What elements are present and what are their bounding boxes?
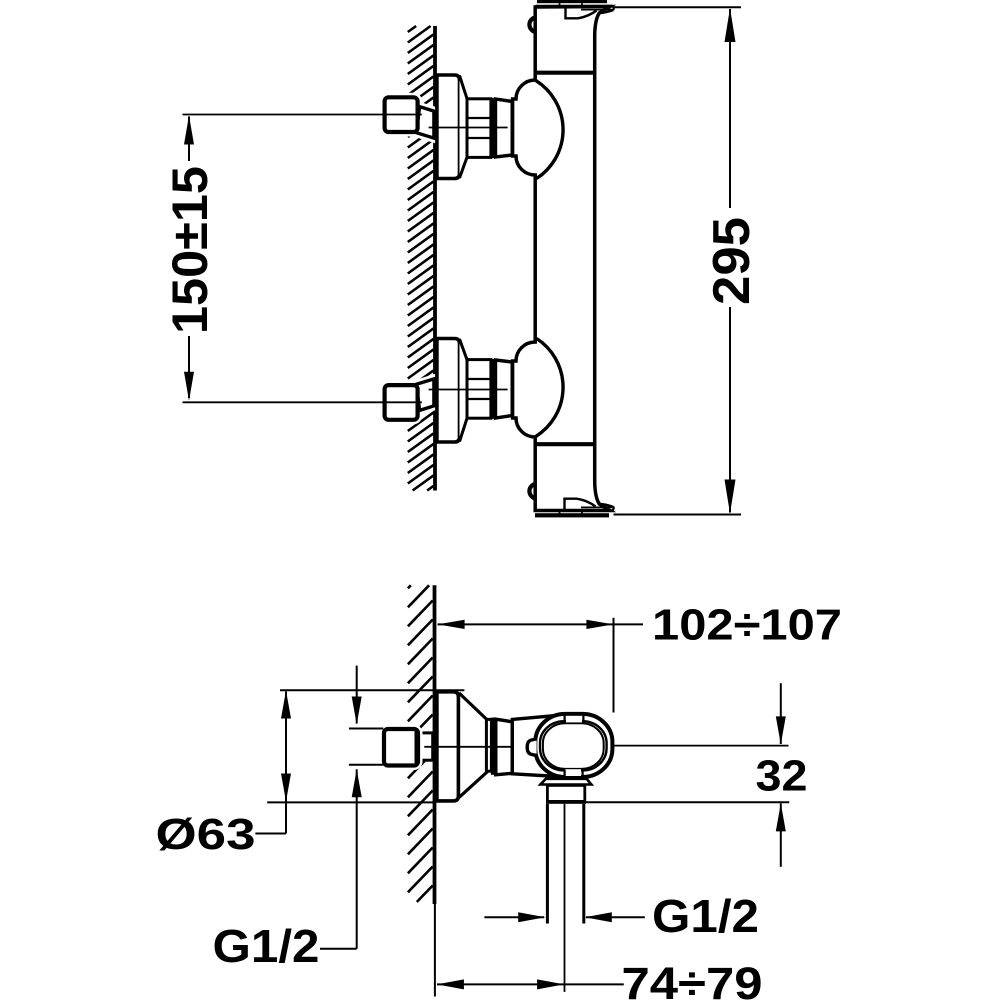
102÷107 extension line bbox=[613, 618, 615, 713]
axis center line (wall to union) bbox=[424, 746, 512, 748]
102÷107 dimension line bbox=[438, 623, 644, 625]
top wall flange (escutcheon) bbox=[437, 75, 460, 179]
295 dim line lower segment bbox=[729, 307, 731, 513]
knob side button bbox=[527, 739, 536, 756]
wall surface line (bottom view) bbox=[433, 585, 437, 904]
top union nut bbox=[496, 99, 513, 157]
bottom union sleeve bbox=[467, 360, 491, 419]
bottom knob right skirt bbox=[600, 504, 614, 507]
74÷79 dimension line bbox=[437, 983, 624, 985]
G1/2 left top arrow shaft bbox=[356, 666, 358, 724]
32 bottom arrow shaft bbox=[780, 803, 782, 866]
svg-text:Ø63: Ø63 bbox=[156, 810, 256, 859]
top cap tick left bbox=[559, 3, 561, 6]
knob ring notch top-right bbox=[582, 715, 584, 723]
svg-text:150±15: 150±15 bbox=[162, 166, 218, 334]
bottom wall flange (escutcheon) bbox=[437, 339, 460, 443]
Ø63 top arrow bbox=[281, 691, 291, 719]
102÷107 left arrow bbox=[438, 620, 465, 629]
32 top arrow bbox=[776, 716, 786, 744]
bottom flange chamfer bbox=[460, 339, 468, 442]
top knob skirt curve bbox=[578, 11, 597, 19]
top knob step bbox=[566, 6, 579, 18]
74÷79 right arrow bbox=[537, 979, 564, 989]
top flange chamfer bbox=[460, 76, 468, 179]
Ø63 bottom arrow bbox=[281, 774, 291, 802]
bottom knob skirt curve bbox=[577, 499, 596, 507]
bottom view supply hex nut bbox=[384, 729, 418, 766]
G1/2 left bottom arrow shaft bbox=[356, 769, 358, 948]
G1/2 left top arrow bbox=[352, 697, 362, 725]
union face bar (bottom view) bbox=[491, 718, 496, 775]
svg-text:G1/2: G1/2 bbox=[652, 890, 759, 942]
svg-text:G1/2: G1/2 bbox=[213, 920, 320, 972]
bottom knob cap bar bbox=[535, 513, 609, 517]
bottom nut facet line bbox=[416, 387, 418, 418]
bottom view wall union neck bbox=[420, 733, 433, 760]
bottom knob rim bbox=[536, 507, 614, 511]
bottom sleeve thread line 2 bbox=[467, 398, 491, 400]
G1/2 right left arrow shaft bbox=[484, 916, 544, 918]
top ear clip bbox=[529, 17, 536, 32]
150 top arrow bbox=[184, 116, 194, 145]
102÷107 right arrow bbox=[586, 620, 613, 629]
top knob cap bar bbox=[537, 0, 607, 3]
Ø63 top extension line bbox=[280, 689, 464, 691]
wall hatch (bottom view) bbox=[408, 585, 433, 902]
bottom sleeve thread line bbox=[467, 378, 491, 380]
top sleeve thread line 2 bbox=[467, 137, 491, 139]
shower hose right edge bbox=[582, 804, 585, 924]
bottom union nut bbox=[496, 360, 513, 418]
bottom cap tick right bbox=[581, 511, 583, 514]
top cartridge dome arc bbox=[536, 81, 563, 179]
150 dim line upper segment bbox=[188, 117, 190, 162]
top inlet wall-side center line bbox=[183, 114, 422, 116]
295 dim line upper segment bbox=[729, 9, 731, 208]
bottom union face bar bbox=[490, 359, 496, 419]
32 top arrow shaft bbox=[780, 683, 782, 744]
G1/2 right right arrow shaft bbox=[586, 916, 645, 918]
bottom knob under-rim line bbox=[581, 506, 612, 508]
top nut facet line bbox=[416, 99, 418, 130]
G1/2 left leader bbox=[320, 948, 357, 950]
Ø63 dimension line bbox=[285, 692, 287, 834]
G1/2 right right arrow bbox=[585, 912, 612, 922]
top inlet hex nut bbox=[385, 97, 418, 132]
union sleeve (bottom view) bbox=[486, 719, 491, 771]
lower section line bbox=[535, 442, 595, 446]
295 top arrow bbox=[725, 8, 736, 42]
bottom inlet eccentric cone bbox=[416, 379, 434, 411]
G1/2 left top extension bbox=[349, 728, 383, 730]
top knob under-rim line bbox=[581, 9, 612, 11]
bottom cap tick left bbox=[559, 511, 561, 514]
top inlet mixer-side center line bbox=[429, 127, 508, 129]
supply nut facet line bbox=[415, 731, 417, 763]
G1/2 right left arrow bbox=[518, 912, 545, 922]
upper section line bbox=[535, 71, 595, 75]
knob oval inner ring bbox=[540, 721, 607, 770]
bottom inlet hex nut bbox=[385, 385, 418, 420]
top knob rim bbox=[536, 6, 614, 10]
wall surface line (top view) bbox=[433, 26, 437, 491]
hose center line bbox=[564, 804, 566, 992]
32 bottom extension line bbox=[567, 801, 789, 803]
bottom ear clip bbox=[529, 484, 536, 499]
295 bottom arrow bbox=[725, 480, 736, 514]
top union face bar bbox=[490, 98, 496, 158]
Ø63 bottom extension line bbox=[267, 801, 433, 803]
150 dim line lower segment bbox=[188, 336, 190, 398]
bottom inlet wall-side center line bbox=[183, 401, 422, 403]
knob oval outer ring bbox=[535, 714, 612, 777]
bottom inlet mixer-side center line bbox=[429, 389, 508, 391]
G1/2 left bottom extension bbox=[349, 764, 383, 766]
shower hose left edge bbox=[546, 804, 549, 924]
G1/2 left bottom arrow bbox=[352, 769, 362, 797]
flange cone bbox=[459, 693, 489, 798]
svg-text:74÷79: 74÷79 bbox=[622, 958, 763, 1000]
wall hatch (top view) bbox=[408, 26, 434, 491]
union nut (bottom view) bbox=[496, 719, 513, 775]
body main outline bbox=[513, 7, 610, 511]
295 bottom extension line bbox=[614, 514, 742, 516]
top union sleeve bbox=[467, 99, 491, 158]
Ø63 leader bbox=[255, 833, 286, 835]
white clearance around top union bbox=[416, 107, 434, 139]
74÷79 left arrow bbox=[437, 979, 464, 989]
knob ring notch top-left bbox=[563, 715, 565, 723]
top sleeve thread line bbox=[467, 117, 491, 119]
bottom knob step bbox=[565, 499, 578, 511]
svg-text:295: 295 bbox=[703, 217, 761, 305]
top knob right skirt bbox=[600, 10, 614, 13]
axis center line right of knob / 32 top extension bbox=[614, 745, 789, 747]
hose connection nut bbox=[547, 785, 584, 801]
knob ring notch bottom-left bbox=[563, 770, 565, 777]
150 bottom arrow bbox=[184, 372, 194, 401]
svg-text:102÷107: 102÷107 bbox=[652, 601, 842, 650]
white clearance around bottom union bbox=[416, 379, 434, 411]
svg-text:32: 32 bbox=[756, 752, 808, 801]
valve body section bbox=[512, 715, 560, 776]
top cap tick right bbox=[581, 3, 583, 6]
295 top extension line bbox=[614, 6, 742, 8]
32 bottom arrow bbox=[776, 803, 786, 831]
top inlet eccentric cone bbox=[416, 107, 434, 139]
wall line extension (74÷79 datum) bbox=[434, 904, 436, 997]
hose cone collar bbox=[540, 779, 591, 785]
knob ring notch bottom-right bbox=[581, 770, 583, 777]
bottom cartridge dome arc bbox=[536, 339, 563, 437]
flange escutcheon (bottom view) bbox=[437, 692, 459, 801]
